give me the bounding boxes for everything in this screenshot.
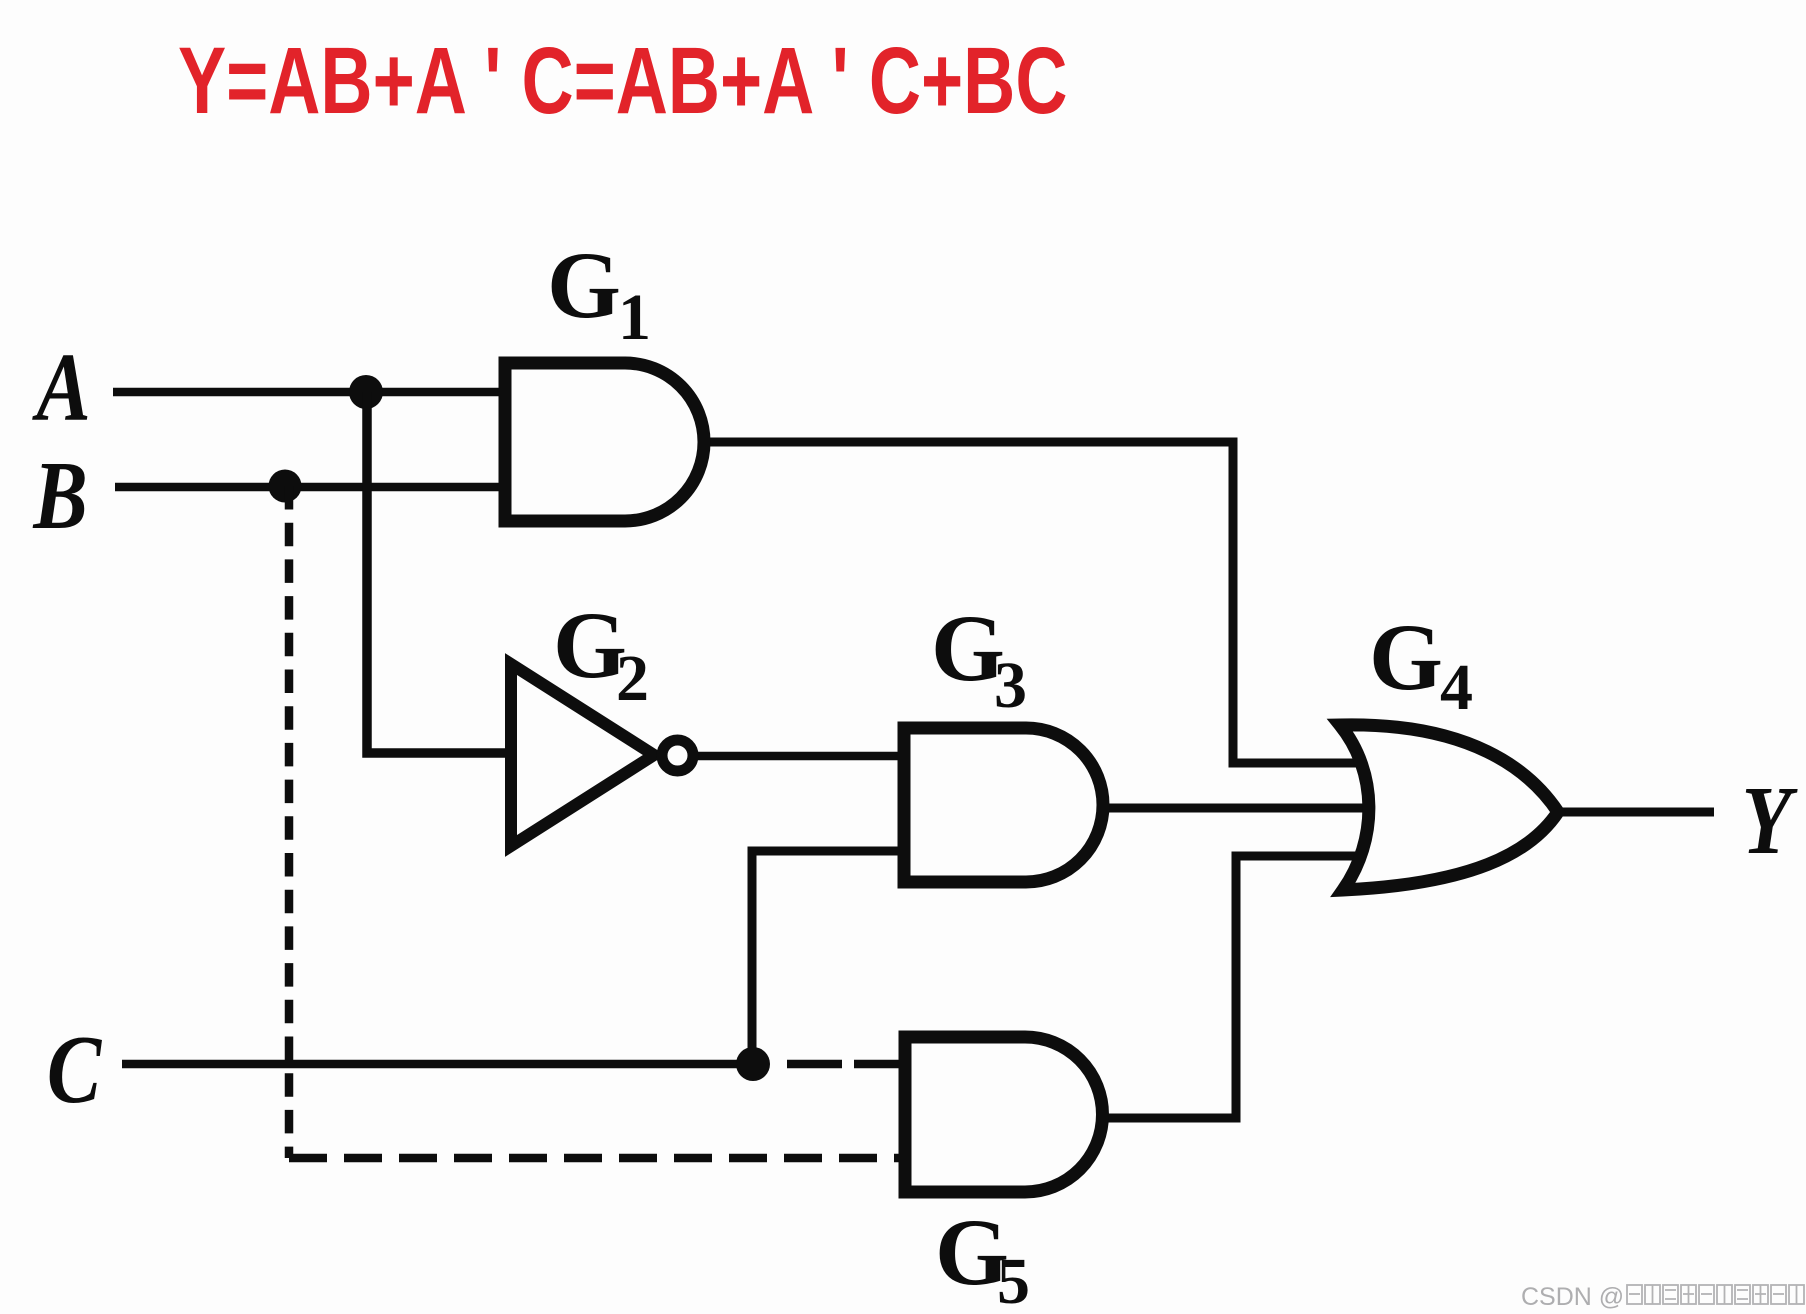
AND gate G3 <box>904 728 1103 882</box>
AND gate G5 <box>905 1037 1103 1192</box>
inverter G2 <box>511 664 654 846</box>
wire dashed B to G5 (horizontal) <box>289 1154 902 1163</box>
wire dashed B to G5 (vertical) <box>285 486 294 1158</box>
svg-text:G: G <box>547 232 621 338</box>
svg-text:Y=AB+A ' C=AB+A ' C+BC: Y=AB+A ' C=AB+A ' C+BC <box>178 27 1067 133</box>
svg-text:2: 2 <box>616 642 649 715</box>
formula label Y=AB+A'C=AB+A'C+BC <box>178 27 1067 133</box>
svg-text:G: G <box>1369 604 1443 710</box>
wire A input <box>113 388 505 397</box>
label G1 <box>547 232 651 354</box>
inverter bubble G2 <box>662 740 693 771</box>
label G4 <box>1369 604 1473 724</box>
input label C <box>47 1016 102 1123</box>
label G5 <box>935 1199 1030 1314</box>
OR gate G4 <box>1340 725 1558 890</box>
svg-text:5: 5 <box>997 1245 1030 1314</box>
input label B <box>32 442 87 549</box>
wire C input <box>122 1060 753 1069</box>
svg-text:3: 3 <box>994 649 1027 722</box>
wire G1 output to G4 <box>700 442 1360 763</box>
wire G3 output to G4 <box>1100 804 1372 813</box>
wire G5 output to G4 <box>1100 856 1361 1118</box>
svg-text:Y: Y <box>1742 767 1798 874</box>
node C junction dot <box>736 1047 770 1081</box>
wire C branch to G3 <box>752 851 904 1064</box>
label G2 <box>553 592 649 715</box>
svg-text:CSDN @: CSDN @ <box>1521 1283 1624 1311</box>
wire A branch to G2 <box>367 392 511 753</box>
AND gate G1 <box>505 363 704 521</box>
node B junction dot <box>269 470 302 503</box>
wire B input <box>115 483 505 492</box>
watermark CSDN <box>1521 1283 1624 1311</box>
input label A <box>32 334 91 441</box>
svg-text:C: C <box>47 1016 102 1123</box>
node A junction dot <box>349 375 383 409</box>
svg-text:A: A <box>32 334 91 441</box>
wire dashed C to G5 <box>787 1060 902 1069</box>
output label Y <box>1742 767 1798 874</box>
wire Y output <box>1556 808 1714 817</box>
wire G2 output to G3 <box>692 752 904 761</box>
label G3 <box>931 595 1027 722</box>
svg-text:1: 1 <box>618 281 651 354</box>
watermark CJK glyph boxes <box>1627 1285 1804 1304</box>
svg-text:4: 4 <box>1440 651 1473 724</box>
svg-text:B: B <box>32 442 87 549</box>
